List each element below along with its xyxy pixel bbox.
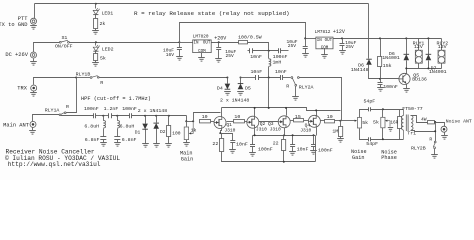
svg-text:RLY2A: RLY2A <box>299 84 314 90</box>
svg-text:1k: 1k <box>191 127 197 133</box>
ground under input cap <box>176 57 183 61</box>
junction D6 top <box>405 37 407 39</box>
resistor 10 Q1 gate <box>200 120 211 123</box>
junction D7 top <box>427 37 429 39</box>
resistor 4W pad <box>428 121 435 124</box>
wire q3 22 stem <box>283 136 285 140</box>
ground under Q2 src cap <box>249 153 256 157</box>
svg-text:100nF: 100nF <box>383 84 398 90</box>
svg-text:10nF: 10nF <box>275 69 287 75</box>
capacitor 10nF Q1 src <box>230 141 235 143</box>
diode D7 1N4001 <box>426 54 432 60</box>
junction U2 out cap <box>341 37 343 39</box>
regulator U1 LM7820 <box>193 40 212 53</box>
ground under U1 out cap <box>215 59 222 63</box>
svg-text:RLY2B: RLY2B <box>411 146 426 152</box>
wire base cap stem2 <box>380 85 382 88</box>
capacitor 10nF decouple <box>250 48 253 53</box>
svg-text:10nF: 10nF <box>236 142 248 148</box>
svg-text:R: R <box>100 80 103 86</box>
wire sec bottom <box>411 131 436 132</box>
svg-text:R: R <box>66 104 69 110</box>
connector J3 TRX <box>31 85 37 91</box>
svg-text:LM7820: LM7820 <box>193 34 209 39</box>
wire bottom rail <box>222 152 316 162</box>
wire q4 src cap stem <box>313 136 315 145</box>
diode D6 1N4001 <box>404 54 410 60</box>
wire HPF rail d <box>132 115 187 117</box>
junction D5 <box>240 77 242 79</box>
wire decouple stub right <box>281 50 289 52</box>
svg-text:FT50-77: FT50-77 <box>402 106 423 112</box>
wire rly2b gnd stem <box>434 149 436 155</box>
svg-text:25V: 25V <box>346 44 355 50</box>
svg-text:10nF: 10nF <box>297 147 309 153</box>
wire Q2 drain riser <box>254 108 256 117</box>
svg-text:IN: IN <box>317 39 323 43</box>
wire 5k to gnd <box>95 61 97 63</box>
junction q4 src <box>313 134 315 136</box>
wire relay bottom rail <box>407 68 442 70</box>
svg-text:TX to GND: TX to GND <box>0 22 28 28</box>
wire TRX rail a <box>77 77 91 79</box>
ground under mid cap <box>289 152 296 156</box>
wire U2 in cap stem <box>305 39 307 47</box>
svg-text:6.8uH: 6.8uH <box>120 123 135 129</box>
capacitor 54pF bottom <box>369 137 371 141</box>
ground under U2 <box>321 55 328 59</box>
wire top PTT rail <box>35 3 369 5</box>
switch RLY1B <box>90 77 92 79</box>
junction D7 bottom <box>427 67 429 69</box>
resistor 5k LED2 <box>94 54 98 61</box>
svg-text:2 x 1N4148: 2 x 1N4148 <box>220 97 249 103</box>
svg-text:15k: 15k <box>383 63 392 69</box>
svg-text:R: R <box>286 84 289 90</box>
junction hpf L2 <box>116 115 118 117</box>
wire LED1 to R <box>95 15 97 19</box>
wire pad to node <box>435 122 436 124</box>
wire D5 stem <box>240 78 242 84</box>
wire D2 gnd stem <box>156 129 158 144</box>
wire pot gnd stem <box>186 140 188 143</box>
ground under RLY2B <box>431 155 438 159</box>
capacitor 10uF/25V at U1 out <box>216 48 221 50</box>
wire r10a to q1 <box>211 121 215 123</box>
svg-text:OUT: OUT <box>203 42 211 46</box>
wire drain rail <box>222 108 341 111</box>
potentiometer 5k Noise Gain <box>357 118 361 129</box>
svg-text:RLY1A: RLY1A <box>45 107 60 113</box>
wire gate over line <box>194 113 221 122</box>
wire L2 stem <box>117 116 119 121</box>
svg-text:S1: S1 <box>62 35 68 41</box>
wire 10nF mid stem <box>292 136 294 145</box>
wire D1 gnd stem <box>145 130 147 144</box>
svg-text:D4: D4 <box>217 85 223 91</box>
wire TRX rail e <box>283 77 291 79</box>
wire q1 22 stem <box>221 134 222 139</box>
wire q2 cap gnd stem <box>252 147 254 153</box>
wire PTT to top rail <box>34 4 36 19</box>
capacitor 10nF series right <box>281 75 283 80</box>
svg-text:54pF: 54pF <box>364 99 376 105</box>
junction LED1 branch <box>95 3 97 5</box>
ground under R100 <box>165 144 172 148</box>
ground under RLY2A <box>292 97 299 101</box>
svg-text:22: 22 <box>212 141 218 147</box>
inductor 6.8uH L1 <box>103 121 105 129</box>
transistor Q4 J310 <box>308 115 320 127</box>
capacitor 10nF series left <box>256 75 259 80</box>
svg-text:25V: 25V <box>288 43 297 49</box>
svg-text:100nF: 100nF <box>318 147 333 153</box>
junction Q5 base node <box>379 78 381 80</box>
wire Q4 drain riser <box>316 111 318 116</box>
ground under D2 <box>153 144 160 148</box>
wire LED2 stem <box>95 43 97 46</box>
svg-text:Gain: Gain <box>352 155 364 161</box>
switch RLY1A <box>59 114 61 116</box>
connector J1 PTT <box>31 18 37 24</box>
svg-text:100nF: 100nF <box>84 106 99 112</box>
ground under NoiseANT <box>441 136 448 140</box>
wire R100 stem <box>168 116 170 126</box>
svg-text:LED1: LED1 <box>102 10 114 16</box>
svg-text:J310 J310: J310 J310 <box>256 126 281 132</box>
svg-text:15: 15 <box>295 114 301 120</box>
ground under Main Gain pot <box>183 143 190 147</box>
svg-text:J310: J310 <box>224 127 235 133</box>
svg-text:J310: J310 <box>300 127 311 133</box>
wire DC gnd stem <box>33 59 35 62</box>
svg-text:Phase: Phase <box>381 155 397 161</box>
resistor 22 Q3 <box>282 140 286 151</box>
wire U1 com stem <box>201 53 203 58</box>
wire q4 out <box>321 120 325 122</box>
wire U2 in cap stem2 <box>305 49 307 54</box>
svg-text:2 x 1N4148: 2 x 1N4148 <box>138 108 167 114</box>
junction pot top <box>185 120 187 122</box>
wire pot top stem <box>186 122 188 127</box>
junction sec bottom <box>434 130 436 132</box>
svg-text:100nF: 100nF <box>258 147 273 153</box>
svg-text:10nF: 10nF <box>251 69 263 75</box>
wire cap out stem <box>218 43 220 48</box>
svg-text:1N4148: 1N4148 <box>351 67 369 73</box>
wire L1 to C stem <box>103 129 105 137</box>
wire mid cap gnd stem <box>292 147 294 152</box>
svg-text:100nF: 100nF <box>273 54 288 60</box>
wire RLY1A bypass <box>66 78 77 113</box>
svg-text:1mH: 1mH <box>273 60 282 66</box>
svg-text:5k: 5k <box>100 56 106 62</box>
capacitor 100nF base <box>378 83 383 85</box>
junction Q5 col node <box>405 67 407 69</box>
svg-text:Gain: Gain <box>181 156 193 162</box>
svg-text:1.2nF: 1.2nF <box>104 106 119 112</box>
wire decouple mid <box>253 50 279 52</box>
wire NP top riser <box>382 110 384 118</box>
wire HPF rail a <box>61 115 94 117</box>
wire cap in stem <box>179 43 181 48</box>
transistor Q2 J310 <box>247 116 259 128</box>
svg-text:Main ANT: Main ANT <box>3 122 30 128</box>
wire U2 out cap stem <box>342 39 344 44</box>
inductor 6.8uH L2 <box>117 121 119 129</box>
svg-text:IN: IN <box>194 42 200 46</box>
junction noise ant node <box>434 121 436 123</box>
capacitor 100nF Q2 src <box>250 145 255 147</box>
junction D1 <box>144 115 146 117</box>
svg-text:HPF (cut-off = 1.7MHz): HPF (cut-off = 1.7MHz) <box>81 96 151 102</box>
capacitor 10uF/16V input <box>177 48 182 50</box>
wire 1M gnd stem <box>340 137 342 139</box>
svg-text:12V: 12V <box>438 44 447 50</box>
wire Q5 emitter <box>406 85 408 89</box>
LED LED2 <box>93 45 100 51</box>
wire D6 riser <box>406 39 408 55</box>
wire Q1 drain riser <box>221 108 223 117</box>
wire D4 stem <box>227 78 229 84</box>
svg-text:PTT: PTT <box>18 16 28 22</box>
wire HPF rail c <box>112 115 130 117</box>
junction +26V tap <box>178 41 180 43</box>
wire Q1 source <box>221 129 222 134</box>
capacitor 100nF Q4 src <box>311 145 316 147</box>
wire MainANT gnd stem <box>32 128 34 131</box>
junction D4 <box>226 77 228 79</box>
wire noiseant gnd stem <box>444 133 446 136</box>
junction R100 top <box>168 115 170 117</box>
wire cap in stem2 <box>179 50 181 57</box>
wire 15k bottom <box>380 67 382 79</box>
svg-text:2k: 2k <box>100 21 106 27</box>
wire U2 out cap stem2 <box>342 46 344 51</box>
ground under 5k <box>92 63 99 67</box>
svg-text:1M: 1M <box>332 128 338 134</box>
wire Q4 source riser <box>316 128 318 136</box>
wire Q3 drain riser <box>286 108 288 116</box>
svg-text:D1: D1 <box>135 130 141 136</box>
wire U1 out <box>212 42 239 44</box>
svg-text:6.8uH: 6.8uH <box>84 123 99 129</box>
ground under U2 in cap <box>302 54 309 58</box>
transistor Q5 BD136 <box>399 73 410 84</box>
wire q3 22 bottom <box>283 151 285 162</box>
junction Q1 gate node <box>192 120 194 122</box>
junction Q1 source node <box>219 132 221 134</box>
ground under Q1 src cap <box>229 150 236 154</box>
ground under L2C <box>114 143 121 147</box>
ground under 2k <box>92 31 99 35</box>
wire phase top rail <box>371 109 404 111</box>
wire gate node link <box>187 121 194 123</box>
relay RLY1 coil <box>415 50 422 63</box>
svg-text:25V: 25V <box>226 53 235 59</box>
wire rail into U1 <box>180 42 193 44</box>
resistor 100/0.5W <box>239 41 248 44</box>
diode D8 1N4148 base <box>366 59 372 65</box>
capacitor 100nF decouple <box>279 48 281 53</box>
transistor Q1 J310 <box>214 117 226 129</box>
svg-text:10: 10 <box>202 114 208 120</box>
wire r15 to q4 <box>304 120 309 122</box>
wire 16R bottom riser <box>399 129 401 140</box>
transformer Tr1 FT50-77 <box>401 109 413 139</box>
wire q3 to r15 <box>291 120 294 122</box>
wire supply drop to drain rail <box>268 78 270 108</box>
connector J2 DC +26V <box>31 52 37 58</box>
wire D7 riser <box>428 39 430 55</box>
svg-text:R = relay Release state (relay: R = relay Release state (relay not suppl… <box>134 10 290 17</box>
svg-text:OUT: OUT <box>325 39 333 43</box>
svg-text:LM7812: LM7812 <box>315 30 331 35</box>
capacitor 100nF hpf3 <box>130 113 132 118</box>
svg-text:6.8nF: 6.8nF <box>122 137 137 143</box>
potentiometer 5k Noise Phase <box>381 117 385 128</box>
wire L2 to C stem <box>117 129 119 137</box>
wire L1 stem <box>103 116 105 121</box>
wire 1mH bottom stem <box>268 67 270 78</box>
connector J4 Main ANT <box>30 121 36 127</box>
wire LED2 to R <box>95 52 97 54</box>
switch S1 ON/OFF <box>59 41 61 43</box>
wire bottom rail riser <box>315 136 317 162</box>
wire NG top riser <box>360 110 369 118</box>
wire Q3 source riser <box>284 128 286 136</box>
wire sources rail <box>253 135 316 137</box>
junction +20V node <box>218 41 220 43</box>
svg-text:D5: D5 <box>245 85 251 91</box>
capacitor 1.2nF hpf2 <box>109 113 112 118</box>
svg-text:Q1: Q1 <box>226 122 232 128</box>
junction output node <box>339 120 341 122</box>
junction U2 in cap <box>304 37 306 39</box>
svg-text:Noise ANT: Noise ANT <box>446 119 472 125</box>
wire RLY1 bottom riser <box>418 64 420 69</box>
wire phase bottom rail <box>371 139 404 141</box>
transistor Q3 J310 <box>278 116 290 128</box>
wire DC to rail corner <box>34 43 60 53</box>
svg-text:22: 22 <box>273 140 279 146</box>
wire RLY2 top riser <box>441 39 443 51</box>
ground under 1M <box>337 139 344 143</box>
svg-text:+12V: +12V <box>333 29 345 35</box>
wire 1mH top stem <box>268 51 270 59</box>
wire +12V rail <box>333 38 442 40</box>
ground under Q4 src cap <box>310 151 317 155</box>
svg-text:1N4001: 1N4001 <box>429 69 447 75</box>
wire q1 src cap link <box>221 134 233 141</box>
resistor 15 Q4 gate <box>294 119 304 122</box>
svg-text:54pF: 54pF <box>366 141 378 147</box>
wire out to NG pot <box>341 120 357 122</box>
svg-text:R: R <box>429 137 432 143</box>
resistor 10 output <box>325 120 335 123</box>
junction q3 src <box>283 134 285 136</box>
wire rail down to gate node <box>186 116 188 122</box>
wire S1 to +20V rail <box>70 42 180 44</box>
wire sec top <box>411 116 428 123</box>
junction q2 src <box>254 134 256 136</box>
ground under base cap <box>377 88 384 92</box>
wire base cap stem <box>380 79 382 83</box>
junction r22 bottom <box>283 161 285 163</box>
svg-text:TRX: TRX <box>17 85 27 91</box>
wire NP bottom riser <box>382 128 384 140</box>
resistor 16R <box>398 117 402 129</box>
svg-text:12V: 12V <box>414 44 423 50</box>
svg-text:100/0.5W: 100/0.5W <box>238 35 262 41</box>
svg-text:4W: 4W <box>421 116 427 122</box>
wire D8 to base rail <box>369 65 399 79</box>
junction mid caps <box>268 77 270 79</box>
junction NP top <box>382 108 384 110</box>
svg-text:5k: 5k <box>362 120 368 126</box>
wire TRX rail c <box>241 77 256 79</box>
ground under L1C <box>100 143 107 147</box>
svg-text:BD136: BD136 <box>412 77 427 83</box>
junction q2 drain <box>254 107 256 109</box>
capacitor 6.8nF L2 <box>114 137 120 140</box>
wire MainANT riser <box>33 115 60 122</box>
capacitor 10uF/25V U2 in <box>303 47 308 49</box>
ground under Q5 <box>403 89 410 93</box>
ground under PTT <box>30 26 37 30</box>
wire R to gnd <box>95 29 97 31</box>
diode D2 1N4148 <box>153 123 159 129</box>
capacitor 6.8nF L1 <box>100 137 106 140</box>
junction 15k top <box>379 37 381 39</box>
wire TRX rail d <box>259 77 281 79</box>
capacitor 54pF top <box>369 107 371 111</box>
svg-text:6.8nF: 6.8nF <box>85 137 100 143</box>
wire R100 to corner <box>248 43 269 51</box>
wire TRX rail b <box>99 77 228 79</box>
capacitor 100nF hpf1 <box>94 113 96 118</box>
connector J5 Noise ANT <box>441 126 447 132</box>
ground under U1 <box>198 58 205 62</box>
wire 1M top <box>340 121 342 127</box>
svg-text:10: 10 <box>327 114 333 120</box>
junction LED2 branch <box>95 41 97 43</box>
ground under U2 out cap <box>339 51 346 55</box>
wire node drop <box>435 123 437 142</box>
wire NG bottom riser <box>360 129 369 140</box>
resistor 100 shunt <box>167 126 171 137</box>
junction mid cap <box>292 134 294 136</box>
resistor 22 Q1 <box>220 139 224 152</box>
wire C1 gnd stem <box>103 140 105 143</box>
wire D7 bottom <box>428 61 430 69</box>
junction q3 drain <box>285 107 287 109</box>
regulator U2 LM7812 <box>316 37 333 49</box>
inductor 1mH <box>269 59 271 67</box>
potentiometer 1k Main Gain <box>184 127 188 140</box>
wire RLY2 bottom riser <box>441 64 443 69</box>
wire q2 q3 gate link <box>259 121 279 123</box>
svg-text:COM: COM <box>198 50 206 54</box>
junction hpf L1 <box>102 115 104 117</box>
svg-text:100: 100 <box>172 131 181 137</box>
wire D6 bottom <box>406 61 408 69</box>
wire RLY2A to gnd <box>295 87 297 97</box>
svg-text:16V: 16V <box>166 52 175 58</box>
svg-text:100nF: 100nF <box>122 106 137 112</box>
ground under TRX <box>30 93 37 97</box>
junction supply drain <box>268 107 270 109</box>
